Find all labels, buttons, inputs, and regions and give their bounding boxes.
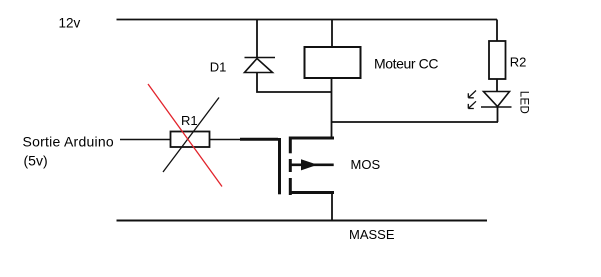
svg-text:R1: R1: [181, 113, 198, 128]
wire rail to R2: [496, 20, 498, 42]
wire drain node to LED cathode: [332, 121, 499, 123]
transistor Q1 MOS channel segment drain: [289, 137, 292, 154]
wire R2 to LED: [496, 79, 498, 92]
transistor Q1 MOS channel segment source: [289, 178, 292, 195]
svg-text:12v: 12v: [59, 16, 81, 31]
svg-text:LED: LED: [517, 91, 529, 114]
wire diode cathode branch: [256, 20, 258, 59]
wire motor to MOS drain: [331, 78, 333, 138]
wire ground rail: [117, 220, 488, 222]
svg-text:Moteur CC: Moteur CC: [374, 55, 438, 71]
resistor R2: [489, 41, 506, 79]
wire rail to motor: [331, 20, 333, 48]
svg-text:MOS: MOS: [351, 157, 381, 172]
wire LED anode to drain wire: [497, 107, 499, 122]
svg-text:Sortie Arduino: Sortie Arduino: [23, 133, 114, 149]
transistor Q1 MOS drain arm: [289, 137, 334, 140]
wire diode anode to motor-drain node: [257, 73, 332, 93]
LED emission arrow 1: [468, 91, 476, 98]
transistor Q1 MOS body arm with arrow: [290, 159, 334, 170]
svg-text:R2: R2: [510, 54, 527, 69]
svg-text:MASSE: MASSE: [349, 227, 395, 242]
svg-text:(5v): (5v): [24, 153, 48, 169]
cross red stroke over R1: [148, 84, 222, 187]
resistor R1: [171, 132, 210, 148]
transistor Q1 MOS channel segment body: [289, 159, 292, 172]
motor Moteur CC: [305, 47, 361, 78]
diode D1: [245, 58, 276, 73]
wire arduino output to R1: [120, 139, 171, 141]
wire R1 to gate (thin): [210, 139, 241, 141]
wire gate lead (thick): [240, 138, 278, 141]
LED diode: [481, 92, 512, 108]
transistor Q1 MOS source arm: [289, 191, 334, 194]
wire top +12V rail: [117, 19, 498, 21]
wire source to ground rail: [331, 193, 333, 221]
LED emission arrow 2: [468, 101, 476, 108]
cross black stroke over R1: [163, 98, 219, 173]
svg-text:D1: D1: [210, 60, 227, 75]
transistor Q1 MOS gate bar: [278, 138, 281, 194]
